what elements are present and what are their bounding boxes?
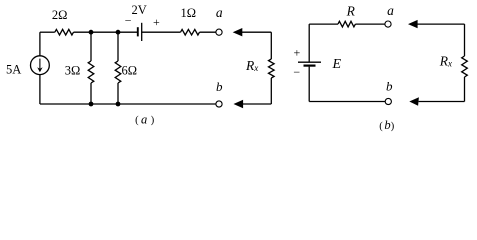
wire R to terminal a (b) (355, 23, 385, 25)
svg-text:−: − (125, 14, 132, 28)
svg-text:R: R (346, 3, 356, 18)
svg-text:2V: 2V (132, 3, 147, 17)
svg-text:a: a (387, 3, 394, 18)
current source 5A (31, 56, 50, 75)
bottom wire (a) (40, 103, 216, 105)
wire arrow-b to Rx (a) (243, 103, 271, 105)
branch resistor 6ohm (117, 32, 119, 61)
voltage source 2V short plate (137, 27, 139, 36)
wire arrow-b to Rx (b) (419, 101, 465, 103)
battery E short plate (304, 64, 316, 66)
arrow into terminal b of (b) (409, 97, 419, 105)
svg-text:2Ω: 2Ω (52, 8, 68, 22)
branch resistor 3ohm (90, 32, 92, 61)
voltage source 2V long plate (141, 23, 143, 41)
arrow into terminal a of (a) (233, 28, 243, 36)
svg-text:(: ( (135, 115, 139, 126)
node junction bottom of 3ohm (89, 102, 94, 107)
wire left vertical (b) lower (308, 67, 310, 102)
svg-text:+: + (153, 15, 160, 29)
arrow into terminal b of (a) (234, 100, 244, 108)
svg-text:E: E (332, 57, 342, 72)
terminal a of (a) (216, 29, 222, 35)
svg-text:a: a (216, 5, 223, 20)
terminal b of (b) (385, 98, 391, 104)
svg-text:Rx: Rx (439, 53, 452, 68)
wire top-left (b) (309, 23, 338, 25)
wire top-left to 2ohm (40, 31, 55, 33)
wire 2V to 1ohm (142, 31, 181, 33)
resistor 2ohm (55, 29, 74, 35)
terminal a of (b) (385, 21, 391, 27)
svg-text:+: + (294, 45, 301, 59)
svg-text:6Ω: 6Ω (122, 64, 138, 78)
wire 1ohm to terminal a (200, 31, 216, 33)
bottom wire (b) (309, 101, 385, 103)
battery E long plate (298, 61, 321, 63)
wire 2ohm to battery 2V (74, 31, 138, 33)
wire left vertical (b) upper (308, 24, 310, 62)
node junction bottom of 6ohm (116, 102, 121, 107)
svg-text:−: − (293, 65, 300, 79)
wire left vertical bottom (a) (39, 75, 41, 104)
wire arrow-a to Rx (a) (242, 31, 271, 33)
svg-text:): ) (151, 115, 155, 126)
svg-text:3Ω: 3Ω (65, 64, 81, 78)
arrow into terminal a of (b) (408, 20, 418, 28)
node junction top of 3ohm (89, 30, 94, 35)
resistor R (338, 21, 355, 27)
svg-text:(: ( (379, 121, 383, 132)
svg-text:): ) (391, 121, 395, 132)
resistor 1ohm (181, 29, 200, 35)
resistor Rx of (b) (464, 24, 466, 56)
node junction top of 6ohm (116, 30, 121, 35)
svg-text:a: a (141, 112, 147, 126)
svg-text:Rx: Rx (245, 58, 258, 73)
svg-text:b: b (216, 79, 223, 94)
svg-text:1Ω: 1Ω (181, 6, 197, 20)
svg-text:b: b (384, 118, 390, 132)
svg-text:5A: 5A (6, 63, 21, 77)
terminal b of (a) (216, 101, 222, 107)
svg-text:b: b (386, 79, 393, 94)
wire arrow-a to Rx (b) (417, 23, 464, 25)
resistor Rx of (a) (270, 32, 272, 59)
wire left vertical top (a) (39, 32, 41, 56)
